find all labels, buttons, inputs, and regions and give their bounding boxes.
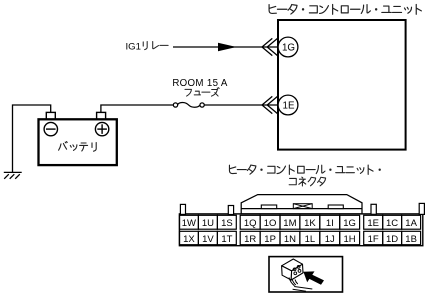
connector top tab left bbox=[180, 204, 185, 214]
svg-text:1J: 1J bbox=[325, 234, 335, 245]
svg-text:1S: 1S bbox=[221, 218, 233, 229]
label IG1 relay bbox=[126, 41, 169, 52]
svg-text:1I: 1I bbox=[326, 218, 334, 229]
connector icon 3d body bbox=[282, 259, 303, 280]
wire IG1 relay to 1G bbox=[173, 46, 278, 48]
battery BAT bbox=[39, 119, 117, 165]
svg-text:1G: 1G bbox=[343, 218, 356, 229]
connector icon wires bbox=[289, 278, 312, 292]
connector top tab right bbox=[419, 203, 424, 214]
svg-text:1T: 1T bbox=[221, 234, 232, 245]
svg-text:1D: 1D bbox=[386, 234, 398, 245]
svg-text:1K: 1K bbox=[304, 218, 316, 229]
connector icon terminals bbox=[293, 266, 301, 275]
label connector line2 bbox=[289, 177, 325, 186]
connector top tab 3 bbox=[371, 204, 376, 214]
wire battery positive to fuse bbox=[101, 105, 173, 113]
svg-text:1O: 1O bbox=[264, 218, 277, 229]
housing slot right bbox=[328, 205, 343, 209]
connector raised housing bbox=[241, 195, 362, 214]
wire fuse to 1E bbox=[204, 104, 277, 106]
svg-text:1X: 1X bbox=[183, 234, 195, 245]
svg-text:1A: 1A bbox=[405, 218, 417, 229]
label ROOM 15 A fuse bbox=[172, 78, 228, 96]
svg-text:1U: 1U bbox=[202, 218, 214, 229]
svg-text:1W: 1W bbox=[182, 218, 196, 229]
connector pin labels row1 bbox=[182, 218, 418, 229]
svg-text:1F: 1F bbox=[368, 234, 379, 245]
svg-text:IG1: IG1 bbox=[126, 42, 141, 53]
svg-text:1L: 1L bbox=[305, 234, 316, 245]
terminal 1G bbox=[278, 37, 298, 57]
connector chevrons at 1E bbox=[262, 96, 278, 113]
connector chevrons at 1G bbox=[262, 38, 278, 55]
heater control unit U1 box bbox=[278, 20, 406, 150]
svg-text:1R: 1R bbox=[244, 234, 256, 245]
svg-text:1B: 1B bbox=[405, 234, 417, 245]
terminal 1E bbox=[278, 95, 298, 115]
svg-text:1P: 1P bbox=[264, 234, 276, 245]
battery terminals bbox=[46, 112, 105, 119]
icon arrow bbox=[303, 271, 324, 284]
svg-text:ROOM 15 A: ROOM 15 A bbox=[172, 78, 228, 89]
connector body outline bbox=[179, 214, 422, 246]
ground bbox=[4, 172, 22, 178]
fuse ROOM 15A bbox=[173, 103, 204, 108]
label battery bbox=[59, 142, 97, 152]
connector top tab 2 bbox=[228, 206, 233, 215]
connector pin labels row2 bbox=[183, 234, 417, 245]
svg-text:1E: 1E bbox=[283, 101, 295, 112]
svg-text:1E: 1E bbox=[367, 218, 379, 229]
svg-text:1G: 1G bbox=[282, 43, 295, 54]
connector pin grid bbox=[180, 215, 421, 244]
arrow on IG1 wire bbox=[218, 43, 237, 51]
housing keyway bowtie bbox=[293, 204, 312, 209]
label heater control unit bbox=[269, 4, 421, 14]
svg-text:1H: 1H bbox=[344, 234, 356, 245]
svg-text:1M: 1M bbox=[283, 218, 296, 229]
wire battery negative to ground bbox=[13, 105, 51, 172]
svg-text:1C: 1C bbox=[386, 218, 398, 229]
svg-text:1Q: 1Q bbox=[244, 218, 257, 229]
svg-text:1V: 1V bbox=[202, 234, 214, 245]
connector view icon box bbox=[269, 257, 343, 292]
label heater control unit connector line1 bbox=[229, 165, 380, 174]
svg-text:1N: 1N bbox=[284, 234, 296, 245]
housing slot left bbox=[261, 205, 276, 209]
